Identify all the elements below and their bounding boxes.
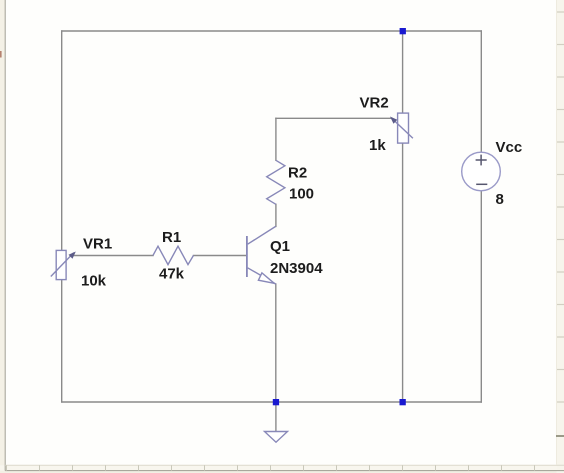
svg-text:1k: 1k <box>369 137 386 154</box>
svg-text:10k: 10k <box>81 272 107 289</box>
svg-text:8: 8 <box>496 191 504 208</box>
svg-text:47k: 47k <box>159 266 185 283</box>
svg-text:VR2: VR2 <box>360 95 389 112</box>
svg-text:2N3904: 2N3904 <box>270 260 323 277</box>
svg-text:100: 100 <box>289 186 314 203</box>
svg-text:R2: R2 <box>288 164 307 181</box>
svg-text:VR1: VR1 <box>83 235 112 252</box>
svg-text:R1: R1 <box>162 229 181 246</box>
svg-text:Q1: Q1 <box>270 238 290 255</box>
svg-text:Vcc: Vcc <box>496 139 523 156</box>
